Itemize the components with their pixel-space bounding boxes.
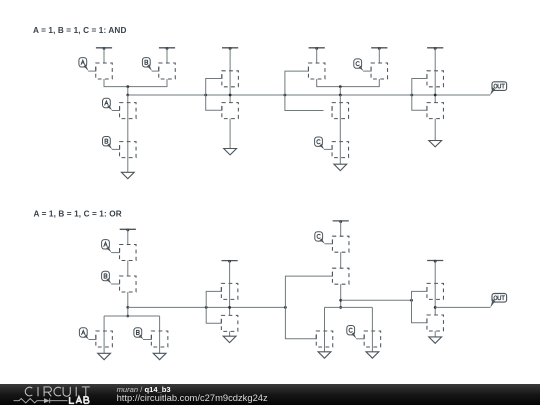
wire (N2 drop to main net) bbox=[339, 87, 341, 95]
ground GND9 bbox=[366, 352, 379, 358]
wire (main net down to S21) bbox=[324, 307, 326, 331]
wire (node N2: S7/S8 sources) bbox=[317, 79, 380, 87]
svg-text:http://circuitlab.com/c27m9cdz: http://circuitlab.com/c27m9cdzkg24z bbox=[117, 392, 268, 403]
wire (gate A to SA1) bbox=[88, 70, 96, 72]
power VDD T9 bbox=[333, 220, 349, 223]
flag B (gate of SB1) bbox=[142, 58, 152, 71]
ground GND4 bbox=[429, 141, 442, 147]
wire (stageB4 gate bus) bbox=[412, 291, 427, 322]
flag A (gate of S15) bbox=[79, 328, 88, 340]
junction output node OUT (bottom) bbox=[434, 306, 437, 309]
wire (gate C to S22) bbox=[356, 338, 364, 340]
wire (S18 to ground) bbox=[229, 331, 231, 336]
wire (VDD to switch SB1) bbox=[166, 48, 168, 64]
wire (to switch S16) bbox=[159, 316, 161, 331]
wire (S13 to S14) bbox=[127, 261, 129, 277]
switch S16 (NMOS gate B, closed) bbox=[151, 331, 168, 347]
switch S20 (PMOS gate from bus, open) bbox=[332, 268, 349, 284]
CircuitLab logo: CIRCUIT wordmark bbox=[25, 387, 90, 396]
wire (VDD to switch S5) bbox=[229, 48, 231, 71]
wire (stageB3 gate bus) bbox=[285, 276, 332, 339]
junction stageB3 output node bbox=[339, 299, 342, 302]
wire (VDD to switch S8) bbox=[378, 48, 380, 64]
svg-text:A = 1, B = 1, C = 1: OR: A = 1, B = 1, C = 1: OR bbox=[34, 210, 122, 219]
wire (to switch S15) bbox=[103, 316, 105, 331]
wire (through S21 closed to ground) bbox=[324, 331, 326, 352]
ground GND2 bbox=[224, 149, 237, 155]
junction main net / pull-down chain bbox=[126, 94, 129, 97]
switch SA1 (PMOS gate A, open) bbox=[96, 63, 113, 79]
junction main net / stage3 chain bbox=[339, 94, 342, 97]
junction output node OUT (top) bbox=[434, 94, 437, 97]
junction gate-bus stageB2 bbox=[205, 306, 208, 309]
wire (N1 drop to main net) bbox=[127, 87, 129, 95]
power VDD T7 bbox=[120, 229, 136, 232]
wire (through S16 closed to ground) bbox=[159, 331, 161, 353]
wire (S19 to S20) bbox=[340, 252, 342, 268]
power VDD T2 bbox=[159, 47, 175, 50]
wire (VDD to switch S7) bbox=[316, 48, 318, 64]
wire (VDD to switch S17) bbox=[229, 261, 231, 284]
wire (gate C to S19) bbox=[325, 243, 333, 245]
switch S11 (PMOS, closed) bbox=[427, 71, 444, 87]
switch S23 (PMOS, closed) bbox=[427, 283, 444, 299]
ground GND5 bbox=[98, 353, 111, 359]
wire (pull-down chain through SA2,SB2 closed) bbox=[127, 95, 129, 172]
junction stage2 node on main net bbox=[229, 94, 232, 97]
power VDD T10 bbox=[427, 260, 443, 263]
switch S21 (NMOS gate from bus, closed) bbox=[316, 331, 333, 347]
junction stageB2 node on main net bbox=[228, 306, 231, 309]
switch S7 (PMOS gate from bus, open) bbox=[308, 63, 325, 79]
svg-text:A = 1, B = 1, C = 1: AND: A = 1, B = 1, C = 1: AND bbox=[33, 26, 127, 35]
wire (gate B to S16) bbox=[143, 339, 151, 341]
switch S24 (NMOS, open) bbox=[427, 315, 444, 331]
wire (through S15 closed to ground) bbox=[103, 331, 105, 353]
switch SB2 (NMOS gate B, closed) bbox=[120, 142, 137, 158]
wire (gate A to S15) bbox=[89, 339, 96, 341]
flag B (gate of S14) bbox=[102, 271, 112, 284]
wire (gate C to S8) bbox=[363, 70, 371, 72]
flag B (gate of S16) bbox=[134, 328, 143, 340]
wire (gate B to S14) bbox=[111, 283, 119, 285]
junction N1 bbox=[126, 85, 129, 88]
flag A (gate of SA2) bbox=[103, 98, 113, 110]
wire (drop to pull-down pair) bbox=[127, 307, 129, 316]
switch S12 (NMOS, open) bbox=[427, 103, 444, 119]
wire (S14 to main net) bbox=[127, 292, 129, 307]
junction main net bottom bbox=[126, 306, 129, 309]
footer bar bbox=[0, 384, 540, 405]
wire (S6 to ground) bbox=[229, 119, 231, 149]
wire (stage2 gate bus) bbox=[206, 79, 222, 111]
wire (bottom main net, left segment y=307.4) bbox=[128, 306, 286, 308]
wire (bottom main net, right segment y=307.4) bbox=[325, 306, 373, 308]
junction gate-bus stageB4 bbox=[410, 299, 413, 302]
wire (S20 to main net) bbox=[340, 284, 342, 307]
switch S9 (NMOS gate from bus, closed) bbox=[332, 103, 349, 119]
switch S5 (PMOS, closed) bbox=[222, 71, 239, 87]
wire (node N1: SA1/SB1 sources) bbox=[104, 79, 167, 87]
wire (through S17 to S18) bbox=[229, 283, 231, 315]
title: A = 1, B = 1, C = 1: AND bbox=[33, 26, 127, 35]
wire (through S5 to S6) bbox=[229, 71, 231, 103]
flag C (gate of S19) bbox=[315, 232, 325, 244]
switch S17 (PMOS, closed) bbox=[221, 283, 238, 299]
junction N2 bbox=[339, 85, 342, 88]
junction gate-bus stage4 bbox=[410, 94, 413, 97]
switch S13 (PMOS gate A, open) bbox=[120, 245, 137, 261]
flag C (gate of S10) bbox=[315, 137, 325, 149]
switch S18 (NMOS, open) bbox=[221, 315, 238, 331]
ground GND10 bbox=[429, 337, 442, 343]
wire (pull-down distribution) bbox=[104, 315, 160, 317]
CircuitLab logo: LAB wordmark bbox=[70, 397, 89, 404]
wire (VDD to switch S19) bbox=[340, 221, 342, 237]
footer text: url bbox=[117, 392, 268, 403]
junction pull-down distribution bbox=[126, 315, 129, 318]
wire (gate B to SB1) bbox=[152, 70, 159, 72]
ground GND1 bbox=[121, 172, 134, 178]
wire (VDD to switch S23) bbox=[434, 261, 436, 284]
wire (stage3 gate bus) bbox=[285, 71, 324, 110]
wire (VDD to switch S13) bbox=[127, 229, 129, 245]
flag A (gate of SA1) bbox=[79, 58, 89, 71]
ground GND7 bbox=[223, 336, 236, 342]
flag A (gate of S13) bbox=[102, 240, 112, 253]
flag C (gate of S8) bbox=[354, 59, 364, 71]
power VDD T3 bbox=[222, 47, 238, 50]
wire (through S22 closed to ground) bbox=[371, 331, 373, 352]
ground GND3 bbox=[334, 164, 347, 170]
switch S10 (NMOS gate C, closed) bbox=[332, 142, 349, 158]
footer text: muran / q14_b3 bbox=[117, 385, 171, 394]
power VDD T6 bbox=[427, 47, 443, 50]
wire (VDD to switch SA1) bbox=[103, 48, 105, 64]
wire (through S11 to S12) bbox=[434, 71, 436, 103]
flag OUT (top circuit) bbox=[490, 82, 507, 95]
power VDD T1 bbox=[96, 47, 112, 50]
title: A = 1, B = 1, C = 1: OR bbox=[34, 210, 122, 219]
junction gate-bus stage2 bbox=[204, 94, 207, 97]
wire (main net down to S22) bbox=[371, 307, 373, 331]
wire (stage4 gate bus) bbox=[412, 79, 427, 111]
junction gate-bus stage3 bbox=[284, 94, 287, 97]
switch SA2 (NMOS gate A, closed) bbox=[120, 103, 137, 119]
switch S19 (PMOS gate C, open) bbox=[332, 236, 349, 252]
wire (top main net Y, y=95) bbox=[128, 94, 490, 96]
switch S14 (PMOS gate B, open) bbox=[120, 276, 137, 292]
switch S8 (PMOS gate C, open) bbox=[371, 63, 388, 79]
wire (gate A to S13) bbox=[111, 252, 119, 254]
junction main net at stageB3 bbox=[339, 306, 342, 309]
power VDD T8 bbox=[222, 260, 238, 263]
ground GND8 bbox=[318, 352, 331, 358]
switch SB1 (PMOS gate B, open) bbox=[159, 63, 176, 79]
wire (stageB2 gate bus) bbox=[206, 291, 221, 323]
wire (stage3 pull-down chain S9,S10 closed) bbox=[339, 95, 341, 164]
flag B (gate of SB2) bbox=[103, 137, 113, 150]
junction gate-bus stageB3 bbox=[284, 306, 287, 309]
flag C (gate of S22) bbox=[347, 326, 357, 339]
switch S22 (NMOS gate C, closed) bbox=[364, 331, 381, 347]
wire (S12 to ground) bbox=[434, 119, 436, 141]
power VDD T4 bbox=[309, 47, 325, 50]
CircuitLab logo: resistor + diode squiggle bbox=[14, 398, 68, 403]
power VDD T5 bbox=[371, 47, 387, 50]
wire (stageB3 output to stageB4) bbox=[341, 299, 412, 301]
wire (OUT net bottom) bbox=[435, 306, 490, 308]
wire (through S23 to S24) bbox=[434, 283, 436, 315]
wire (gate A to SA2) bbox=[112, 110, 120, 112]
wire (gate C to S10) bbox=[324, 148, 332, 150]
switch S6 (NMOS, open) bbox=[222, 103, 239, 119]
wire (S24 to ground) bbox=[434, 331, 436, 337]
wire (VDD to switch S11) bbox=[434, 48, 436, 71]
ground GND6 bbox=[153, 353, 166, 359]
wire (gate B to SB2) bbox=[112, 148, 120, 150]
flag OUT (bottom circuit) bbox=[490, 294, 506, 308]
switch S15 (NMOS gate A, closed) bbox=[96, 331, 113, 347]
